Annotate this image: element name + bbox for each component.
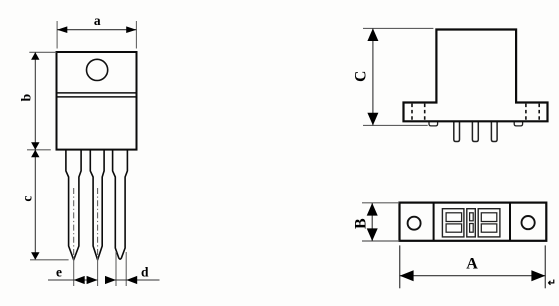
- dimension d arrow pointing right: [105, 276, 116, 284]
- dimension C arrow up: [367, 28, 378, 41]
- pin 3 side view: [491, 120, 497, 142]
- die pad outer left: [442, 209, 464, 237]
- standoff foot left: [429, 120, 438, 126]
- hidden hole line right-left: [525, 104, 527, 121]
- dimension e arrow right: [87, 276, 98, 284]
- pin 2 side view: [472, 120, 478, 142]
- dimension a extension line left: [56, 21, 58, 49]
- dimension b arrow up: [31, 52, 39, 60]
- divider line right: [509, 203, 511, 241]
- mounting hole left: [408, 217, 421, 230]
- lead 3 left edge extension: [115, 252, 117, 286]
- lead 3: [113, 148, 128, 259]
- dimension A line: [400, 275, 546, 277]
- dimension b top extension line: [29, 51, 56, 53]
- svg-text:A: A: [466, 256, 478, 273]
- hidden hole line right-right: [538, 104, 540, 121]
- dimension A left extension line: [399, 245, 401, 288]
- lead 2: [90, 148, 104, 260]
- inner pad right top: [481, 213, 497, 222]
- hidden hole line left-right: [424, 104, 426, 121]
- inner pad right bottom: [481, 224, 497, 232]
- dimension a line: [57, 29, 136, 31]
- lead 2 centerline: [97, 188, 99, 257]
- dimension c line: [34, 150, 36, 260]
- dimension A arrow right: [531, 270, 545, 281]
- lead 1 centerline extension below tip: [73, 257, 75, 286]
- dimension a arrow right: [126, 26, 136, 33]
- dimension d arrow pointing left: [126, 276, 137, 284]
- tab groove line upper: [58, 92, 136, 94]
- dimension b line: [34, 52, 36, 150]
- mounting hole circle: [87, 59, 108, 80]
- dimension B arrow down: [367, 228, 378, 241]
- inner pad middle bottom: [470, 224, 474, 233]
- dimension C bottom extension line: [363, 124, 428, 126]
- lead 1: [66, 148, 81, 260]
- inner pad left top: [446, 213, 462, 222]
- hidden hole line left-left: [411, 104, 413, 121]
- mounting hole right: [522, 216, 535, 229]
- dimension C top extension line: [363, 27, 433, 29]
- divider line left: [433, 203, 435, 241]
- bottom view body rectangle: [400, 203, 547, 241]
- pin 1 side view: [454, 120, 460, 142]
- dimension e arrow left: [74, 276, 85, 284]
- lead 1 centerline: [73, 188, 75, 257]
- dimension a extension line right: [135, 21, 137, 49]
- svg-text:c: c: [19, 196, 34, 202]
- svg-text:d: d: [141, 264, 149, 279]
- dimension A right extension line: [544, 245, 546, 288]
- lead 3 right edge extension: [125, 252, 127, 286]
- standoff foot right: [514, 120, 522, 126]
- dimension B arrow up: [367, 203, 378, 216]
- dimension a arrow left: [57, 26, 67, 33]
- inner pad middle top: [470, 213, 474, 221]
- dimension b/c shared extension line: [27, 149, 51, 151]
- die pad outer right: [478, 209, 500, 237]
- svg-text:e: e: [56, 264, 62, 279]
- dimension B top extension line: [362, 202, 399, 204]
- side view outline: [404, 30, 548, 122]
- die pad outer middle: [467, 209, 476, 237]
- svg-text:b: b: [19, 94, 34, 102]
- inner pad left bottom: [446, 224, 462, 232]
- dimension C line: [372, 28, 374, 125]
- dimension C arrow down: [367, 113, 378, 126]
- svg-text:C: C: [353, 71, 370, 82]
- lead 2 centerline extension below tip: [97, 257, 99, 286]
- svg-text:a: a: [94, 13, 101, 28]
- dimension A arrow left: [400, 270, 414, 281]
- dimension b arrow down: [31, 142, 39, 150]
- dimension c bottom extension line: [30, 259, 69, 261]
- dimension B line: [371, 203, 373, 241]
- dimension e line: [48, 279, 98, 281]
- dimension c arrow up: [31, 150, 39, 158]
- svg-text:↵: ↵: [548, 278, 556, 289]
- dimension d line: [106, 279, 160, 281]
- dimension c arrow down: [31, 252, 39, 259]
- tab groove line lower: [58, 96, 136, 98]
- dimension B bottom extension line: [362, 240, 399, 242]
- svg-text:B: B: [353, 218, 370, 229]
- package body front view: [57, 52, 137, 150]
